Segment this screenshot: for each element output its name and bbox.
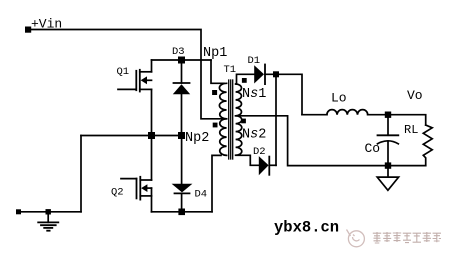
svg-text:D4: D4 (195, 189, 208, 201)
svg-text:Q2: Q2 (111, 187, 124, 199)
svg-text:Np2: Np2 (185, 131, 209, 146)
svg-text:Q1: Q1 (117, 66, 130, 78)
svg-text:ybx8.cn: ybx8.cn (274, 219, 339, 237)
svg-text:D1: D1 (248, 55, 261, 67)
svg-text:T1: T1 (224, 64, 237, 76)
svg-text:Co: Co (365, 141, 381, 156)
svg-text:+Vin: +Vin (31, 17, 62, 32)
svg-text:Vo: Vo (407, 88, 423, 103)
svg-text:Lo: Lo (331, 91, 347, 106)
svg-text:Ns1: Ns1 (242, 87, 266, 102)
svg-text:D2: D2 (253, 146, 266, 158)
svg-text:Ns2: Ns2 (242, 128, 266, 143)
svg-text:Np1: Np1 (203, 46, 227, 61)
svg-text:D3: D3 (172, 46, 185, 58)
svg-text:RL: RL (404, 123, 418, 137)
